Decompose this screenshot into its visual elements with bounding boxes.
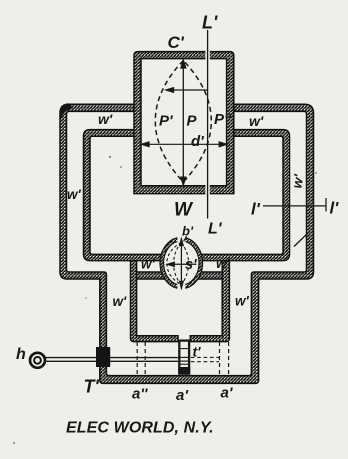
inner neck left wall + bottom box bottom wall left bbox=[131, 261, 179, 342]
svg-text:w': w' bbox=[235, 294, 250, 309]
plug t' dark bottom bbox=[178, 367, 190, 374]
svg-text:L': L' bbox=[208, 221, 223, 238]
bulb bottom opening bbox=[177, 283, 185, 290]
svg-text:W: W bbox=[174, 200, 194, 221]
inner shell left portion bbox=[84, 130, 167, 261]
inner shell right portion bbox=[197, 130, 290, 261]
horizontal arrow in tube (to P') bbox=[166, 88, 208, 93]
bulb b' (spherical valve chamber) bbox=[160, 236, 203, 290]
bulb valve flap (dashed arcs) bbox=[167, 243, 189, 285]
central tube C' (top) bbox=[134, 52, 234, 194]
tube centre line with arrows bbox=[181, 60, 186, 185]
svg-text:d': d' bbox=[191, 133, 204, 150]
outer shell wall (hatched cross-shaped vessel) bbox=[60, 104, 314, 383]
svg-text:s': s' bbox=[185, 257, 197, 273]
svg-text:w': w' bbox=[216, 256, 231, 271]
svg-text:P: P bbox=[187, 113, 198, 130]
svg-text:h: h bbox=[16, 346, 26, 363]
packing gland T' (black block on outer neck wall) bbox=[96, 347, 110, 367]
channel bridge wall right (between bulb and inner neck) bbox=[195, 272, 222, 279]
svg-text:L': L' bbox=[202, 13, 218, 33]
svg-text:T': T' bbox=[84, 377, 100, 397]
svg-text:b': b' bbox=[182, 224, 194, 239]
svg-text:w': w' bbox=[98, 111, 113, 127]
svg-text:w': w' bbox=[67, 187, 82, 202]
b' leader tick bbox=[184, 236, 187, 241]
svg-text:P'': P'' bbox=[214, 111, 232, 128]
svg-text:a': a' bbox=[176, 387, 188, 404]
svg-text:P': P' bbox=[159, 113, 173, 130]
L' axis line gap through tube top wall bbox=[205, 51, 209, 60]
bulb centre line with arrows bbox=[180, 239, 184, 288]
svg-text:w': w' bbox=[249, 113, 264, 129]
svg-text:a'': a'' bbox=[132, 386, 148, 403]
svg-text:ELEC WORLD, N.Y.: ELEC WORLD, N.Y. bbox=[66, 420, 214, 437]
diagonal tick on right wall bbox=[294, 232, 310, 247]
l' reference line bbox=[263, 198, 326, 212]
hidden tube a' right (dashed) bbox=[220, 342, 229, 375]
handle h ring bbox=[30, 353, 45, 368]
bulb top opening bbox=[177, 236, 185, 243]
channel bridge wall left (between inner neck and bulb) bbox=[137, 272, 168, 279]
inner neck right wall + bottom box bottom wall right bbox=[190, 261, 229, 342]
hidden tube a'' (dashed) bbox=[137, 342, 145, 375]
svg-text:a': a' bbox=[221, 385, 233, 402]
L' axis line bbox=[207, 30, 209, 219]
svg-text:w': w' bbox=[141, 257, 156, 272]
rod from handle to electrode bbox=[46, 357, 179, 359]
svg-text:l': l' bbox=[251, 200, 261, 219]
electrode tube a' (centre) bbox=[178, 341, 190, 374]
svg-text:w': w' bbox=[113, 294, 128, 309]
svg-text:C': C' bbox=[168, 33, 185, 52]
paper specks bbox=[13, 156, 317, 444]
L' axis line gap through tube bottom wall bbox=[205, 185, 209, 195]
svg-text:t': t' bbox=[193, 344, 202, 360]
svg-text:l': l' bbox=[330, 199, 340, 218]
d' dimension line with outward arrows bbox=[141, 142, 227, 147]
lens P (dashed pointed oval in tube) bbox=[155, 61, 211, 183]
hidden rod continuation (dashed) bbox=[191, 357, 219, 361]
ink blob at outer top-left corner bbox=[60, 104, 73, 122]
s' arrow in bulb bbox=[167, 262, 196, 266]
